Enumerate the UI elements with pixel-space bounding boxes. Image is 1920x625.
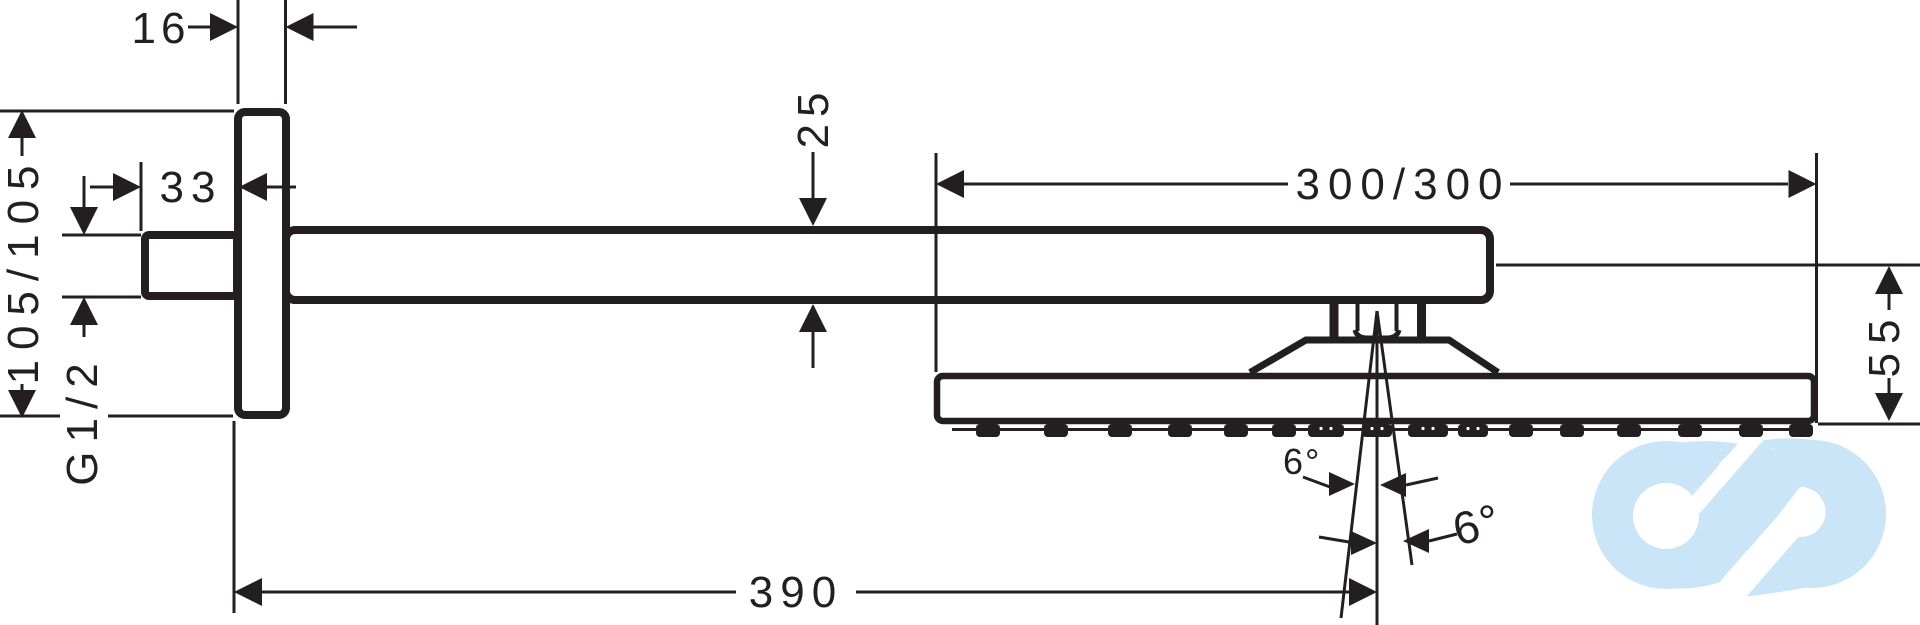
shower arm [286,230,1490,300]
ball joint screw [1355,304,1399,338]
spray face lip [952,428,1800,431]
dim 55 [1860,266,1909,421]
svg-text:16: 16 [132,4,191,53]
wall plate [238,112,286,415]
watermark logo [1592,399,1886,607]
shower head body [937,376,1814,421]
dim G1/2 extension lines [62,235,141,297]
svg-text:300/300: 300/300 [1295,160,1510,209]
dim 300/300 [936,160,1817,209]
spray angle right line [1377,311,1412,565]
dim G1/2 [58,176,107,486]
nozzles [976,424,1813,437]
dim 16 extension lines [238,0,286,104]
escutcheon trapezoid [1250,340,1498,373]
svg-text:G1/2: G1/2 [58,354,107,485]
dim 105/105 extension bottom [0,415,233,418]
label 6 deg right arrows [1319,529,1457,555]
dim 16 [132,4,357,53]
svg-text:6°: 6° [1283,441,1321,482]
svg-text:25: 25 [789,86,838,149]
svg-text:55: 55 [1860,311,1909,378]
arm centre extension line [1496,264,1920,267]
shower arm bracket [1334,300,1422,338]
dim 25 [789,86,838,368]
dim 390 extension line [233,421,236,613]
svg-text:33: 33 [160,163,223,212]
head bottom extension line [1818,423,1920,426]
spray axis center line [1376,312,1379,625]
svg-text:105/105: 105/105 [0,155,48,384]
dim 300/300 extension lines [936,153,1817,423]
dim 105/105 extension top [0,110,234,113]
wall stub G1/2 [145,235,237,296]
dim 105/105 [0,110,48,418]
dim 390 [234,568,1377,617]
svg-text:390: 390 [749,568,843,617]
spray angle left line [1341,311,1377,618]
label 6 deg left [1283,441,1355,496]
dim 33 [90,162,296,231]
label 6 deg left counter arrow [1380,473,1438,497]
